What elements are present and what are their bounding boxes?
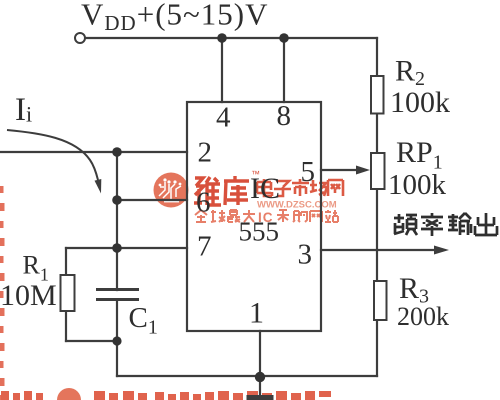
svg-text:7: 7 xyxy=(197,231,212,263)
svg-text:3: 3 xyxy=(298,239,313,271)
svg-text:IC: IC xyxy=(250,172,280,205)
svg-text:2: 2 xyxy=(198,137,213,169)
svg-text:4: 4 xyxy=(216,102,231,134)
svg-text:6: 6 xyxy=(196,187,211,219)
svg-text:100k: 100k xyxy=(388,169,447,201)
svg-text:100k: 100k xyxy=(390,86,450,119)
svg-text:10M: 10M xyxy=(0,279,57,312)
svg-text:5: 5 xyxy=(301,156,316,188)
svg-text:555: 555 xyxy=(239,217,280,247)
svg-text:1: 1 xyxy=(249,297,264,330)
svg-text:8: 8 xyxy=(277,100,292,132)
svg-text:200k: 200k xyxy=(397,302,449,331)
